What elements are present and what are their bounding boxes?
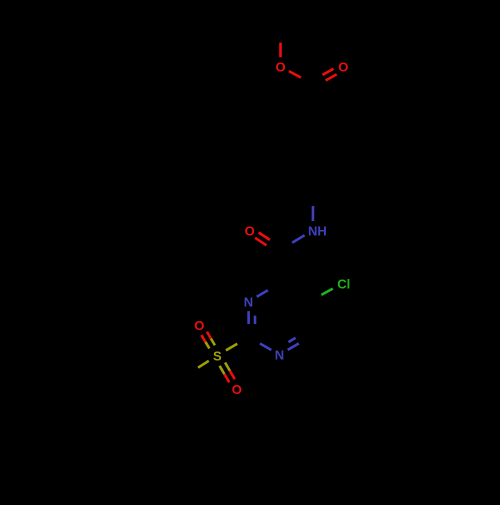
wire: bond O1-C7 (ester O to carbonyl C) <box>289 71 313 84</box>
node N1: pyrimidine nitrogen label <box>275 348 284 363</box>
svg-text:O: O <box>232 382 242 397</box>
wire: pyrimidine bond C6-C5 <box>309 301 312 337</box>
wire: bond S-CH3 (methyl) <box>187 361 209 375</box>
node O2: carbonyl oxygen label <box>338 60 348 75</box>
svg-text:O: O <box>275 60 285 75</box>
wire: benzene ring bond R1-R2 <box>313 120 344 138</box>
svg-text:N: N <box>275 348 284 363</box>
node Cl: chlorine label <box>337 276 350 291</box>
wire: benzene ring bond R3-R4 <box>313 173 344 191</box>
node O5: sulfonyl oxygen label <box>232 382 242 397</box>
wire: bond C7-benzene C1 <box>312 84 315 120</box>
svg-text:O: O <box>338 60 348 75</box>
wire: benzene ring bond R4-R5 (double) <box>282 170 313 191</box>
wire: pyrimidine bond C4-N3 <box>257 284 279 297</box>
wire: benzene ring bond R6-R1 (double) <box>282 120 313 141</box>
wire: pyrimidine double bond N1=C6 <box>288 334 310 350</box>
wire: pyrimidine bond C2-N1 <box>249 337 272 350</box>
wire: bond C2-S (sulfonyl attachment) <box>226 337 249 350</box>
node O4: sulfonyl oxygen label <box>194 318 204 333</box>
svg-text:Cl: Cl <box>337 276 350 291</box>
svg-text:O: O <box>245 223 255 238</box>
wire: pyrimidine double bond N3=C2 <box>249 311 256 337</box>
wire: double bond S=O4 (sulfonyl upper) <box>201 332 215 349</box>
wire: benzene ring bond R2-R3 (double) <box>338 138 344 174</box>
wire: bond N-C8 (amide N to carbonyl C) <box>280 235 305 250</box>
wire: double bond C7=O2 (ester carbonyl) <box>312 69 337 87</box>
wire: double bond C8=O3 (amide carbonyl) <box>255 233 281 253</box>
wire: bond C8-C4 pyrimidine <box>278 250 281 284</box>
wire: bond benzene C4-N amide <box>312 191 315 221</box>
node N3: pyrimidine nitrogen label <box>244 294 253 309</box>
svg-text:N: N <box>244 294 253 309</box>
node S: sulfur label <box>213 348 222 363</box>
wire: bond C5-Cl <box>310 289 333 302</box>
wire: pyrimidine double bond C5=C4 <box>279 284 310 305</box>
node NH: amide nitrogen label <box>308 223 327 238</box>
svg-text:O: O <box>194 318 204 333</box>
svg-text:S: S <box>213 348 222 363</box>
node O1: ester oxygen label <box>275 60 285 75</box>
wire: bond CH3-O1 (methyl ester C-O) <box>279 28 282 57</box>
wire: benzene ring bond R5-R6 <box>281 138 284 174</box>
wire: double bond S=O5 (sulfonyl lower) <box>220 363 235 383</box>
svg-text:NH: NH <box>308 223 327 238</box>
node O3: amide oxygen label <box>245 223 255 238</box>
